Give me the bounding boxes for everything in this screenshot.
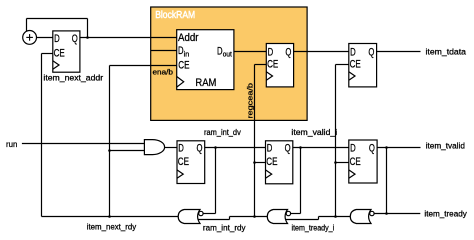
svg-text:Q: Q xyxy=(369,143,375,155)
svg-text:in: in xyxy=(184,51,190,58)
svg-text:D: D xyxy=(350,47,356,59)
svg-text:ram_int_dv: ram_int_dv xyxy=(204,127,241,137)
svg-text:ena/b: ena/b xyxy=(153,68,174,77)
svg-text:item_tready_i: item_tready_i xyxy=(292,222,335,232)
svg-text:out: out xyxy=(223,52,232,59)
svg-text:item_tvalid: item_tvalid xyxy=(426,141,465,151)
svg-text:item_next_addr: item_next_addr xyxy=(43,73,103,83)
svg-text:D: D xyxy=(54,33,60,45)
svg-text:ram_int_rdy: ram_int_rdy xyxy=(203,222,246,232)
svg-text:Q: Q xyxy=(285,47,291,59)
svg-text:CE: CE xyxy=(178,60,189,72)
svg-text:Addr: Addr xyxy=(178,32,199,44)
svg-text:D: D xyxy=(267,143,273,155)
svg-text:item_tdata: item_tdata xyxy=(426,46,467,56)
svg-text:CE: CE xyxy=(350,156,361,168)
svg-text:regcea/b: regcea/b xyxy=(246,83,255,119)
svg-text:BlockRAM: BlockRAM xyxy=(155,10,195,21)
svg-text:D: D xyxy=(350,143,356,155)
svg-text:CE: CE xyxy=(350,58,361,70)
svg-text:item_next_rdy: item_next_rdy xyxy=(87,222,137,232)
svg-text:item_valid_i: item_valid_i xyxy=(291,127,337,137)
svg-text:D: D xyxy=(268,47,274,59)
svg-text:Q: Q xyxy=(72,33,78,45)
svg-text:CE: CE xyxy=(267,58,278,70)
svg-text:CE: CE xyxy=(266,156,277,168)
svg-text:RAM: RAM xyxy=(195,77,216,89)
svg-text:CE: CE xyxy=(178,156,189,168)
svg-text:CE: CE xyxy=(54,47,65,59)
svg-text:Q: Q xyxy=(285,143,291,155)
svg-text:Q: Q xyxy=(197,143,203,155)
svg-text:D: D xyxy=(217,46,223,58)
svg-text:run: run xyxy=(6,139,18,149)
svg-text:Q: Q xyxy=(368,47,374,59)
svg-text:D: D xyxy=(178,143,184,155)
svg-text:item_tready: item_tready xyxy=(424,208,467,218)
